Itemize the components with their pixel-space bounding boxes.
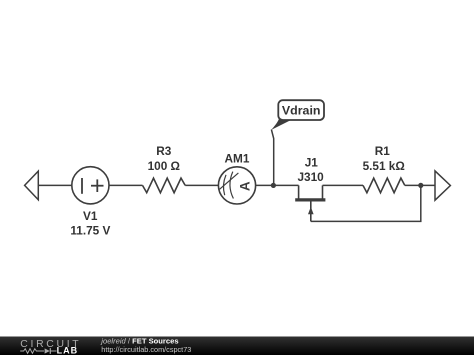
value 11.75 V: [70, 224, 110, 238]
svg-text:AM1: AM1: [225, 152, 250, 166]
wire AM1 to J1 drain: [256, 184, 299, 186]
wire R3 to AM1: [185, 184, 218, 186]
svg-text:5.51 kΩ: 5.51 kΩ: [363, 159, 405, 173]
svg-text:Vdrain: Vdrain: [282, 104, 321, 118]
svg-text:11.75 V: 11.75 V: [70, 224, 110, 238]
voltage source V1: [72, 167, 109, 204]
label AM1: [225, 152, 250, 166]
ammeter AM1: [218, 167, 255, 204]
url text: [101, 345, 191, 354]
output port P2 (right terminal): [435, 171, 450, 200]
label J1: [305, 156, 319, 170]
resistor R1: [363, 178, 405, 193]
wire gate feedback (node B to J1 gate): [311, 185, 421, 221]
svg-text:http://circuitlab.com/cspct73: http://circuitlab.com/cspct73: [101, 345, 191, 354]
node B (output junction): [418, 183, 423, 188]
svg-text:J310: J310: [297, 170, 324, 184]
value J310: [297, 170, 324, 184]
svg-text:R3: R3: [156, 144, 172, 158]
wire P1 to V1: [38, 184, 72, 186]
transistor J1 (N-JFET): [295, 185, 325, 221]
resistor R3: [143, 178, 186, 193]
label V1: [83, 209, 98, 223]
net flag Vdrain: [271, 100, 324, 130]
value 100 Ohm: [148, 159, 180, 173]
input port P1 (left terminal): [25, 171, 39, 200]
svg-text:LAB: LAB: [57, 345, 79, 355]
attribution text: [100, 336, 178, 345]
svg-text:V1: V1: [83, 209, 98, 223]
svg-text:R1: R1: [375, 144, 391, 158]
wire J1 source to R1: [323, 184, 364, 186]
footer bar: [0, 337, 474, 355]
label R3: [156, 144, 172, 158]
wire node A to Vdrain flag: [271, 130, 273, 186]
svg-text:100 Ω: 100 Ω: [148, 159, 180, 173]
svg-text:A: A: [237, 181, 252, 191]
CircuitLab logo: [20, 339, 81, 355]
wire R1 to P2: [405, 184, 435, 186]
wire V1 to R3: [109, 184, 143, 186]
label R1: [375, 144, 391, 158]
value 5.51 kOhm: [363, 159, 405, 173]
node A (drain junction): [271, 183, 276, 188]
svg-text:J1: J1: [305, 156, 319, 170]
